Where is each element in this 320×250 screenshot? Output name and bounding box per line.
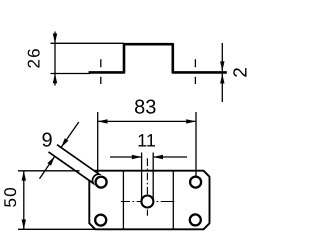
dim 9 leader lower [40, 156, 55, 179]
dim 26 dimension line [54, 32, 56, 86]
dim 9 arrow lower [47, 156, 54, 165]
dim 9 leader upper [61, 122, 79, 148]
plate outline (plan view) [89, 171, 209, 230]
dim 2 dimension line lower [221, 74, 223, 102]
dim 83 left extension line [97, 112, 99, 174]
dim 11 arrow right [132, 155, 142, 159]
svg-text:50: 50 [1, 186, 20, 207]
dim 50 top extension line [18, 170, 80, 172]
right hole axis mark (side view) [194, 59, 196, 84]
center hole [141, 196, 153, 208]
svg-text:11: 11 [137, 130, 156, 150]
svg-text:26: 26 [25, 47, 44, 68]
dim 26 top extension line [51, 42, 125, 44]
slot left edge [141, 153, 143, 200]
dim 83 dimension line [98, 120, 196, 122]
svg-text:9: 9 [41, 130, 52, 152]
dim 11 arrow left [153, 155, 163, 159]
dim 50 bottom extension line [18, 228, 96, 230]
dim 83 arrow right [186, 119, 196, 123]
strap (diagonal bar) white fill [49, 145, 100, 183]
svg-text:2: 2 [230, 67, 250, 78]
dim 83 right extension line [195, 112, 197, 177]
dim 83 arrow left [98, 119, 108, 123]
left hole axis mark (side view) [100, 59, 102, 84]
dim 9 arrow upper [61, 138, 68, 147]
slot right edge [152, 153, 154, 200]
dim 11 dimension line right [153, 156, 187, 158]
dim 2 arrow up [220, 74, 224, 84]
vertical centerline [146, 158, 148, 216]
dim 26 arrow down [53, 34, 57, 44]
dim 50 dimension line [23, 171, 25, 230]
dim 26 arrow up [53, 74, 57, 84]
left bend line [122, 171, 124, 230]
hole bottom-left [95, 215, 106, 226]
dim 11 dimension line left [110, 156, 142, 158]
right bend line [172, 171, 174, 230]
svg-text:83: 83 [134, 96, 156, 118]
horizontal centerline [121, 201, 175, 203]
side view hat profile [89, 44, 227, 72]
strap outline [49, 145, 100, 183]
hole bottom-right [190, 214, 201, 225]
dim 2 dimension line upper [221, 43, 223, 71]
hole top-left [96, 177, 107, 188]
dim 50 arrow up [22, 171, 26, 181]
dim 2 arrow down [220, 61, 224, 71]
dim 50 arrow down [22, 220, 26, 230]
dim 26 bottom extension line [51, 73, 91, 75]
hole top-right [190, 177, 201, 188]
